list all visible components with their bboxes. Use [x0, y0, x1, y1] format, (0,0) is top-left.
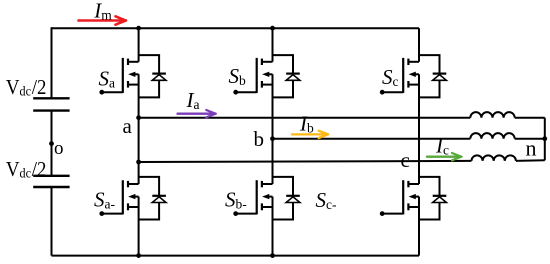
- svg-text:b: b: [254, 127, 265, 151]
- junction dot top bus / leg b: [270, 26, 275, 31]
- body diode of Q2 (Sa-): [139, 177, 166, 220]
- current arrow Im: [79, 16, 127, 24]
- svg-text:Sa: Sa: [99, 66, 116, 90]
- gate terminal dot of Q2 (Sa-): [99, 211, 104, 216]
- svg-text:Sa-: Sa-: [94, 188, 115, 212]
- current arrow Ia: [178, 110, 216, 117]
- phase leg b vertical wire: [272, 28, 274, 255]
- label Vdc/2 (top capacitor): [6, 76, 47, 99]
- body diode of Q3 (Sb): [273, 55, 300, 97]
- gate terminal dot of Q6 (Sc-): [380, 211, 385, 216]
- body diode of Q4 (Sb-): [273, 177, 300, 220]
- wire phase b output: [273, 138, 545, 140]
- phase leg a vertical wire: [138, 28, 140, 255]
- svg-text:c: c: [401, 148, 410, 172]
- gate terminal dot of Q3 (Sb): [233, 90, 238, 95]
- top DC bus wire: [52, 27, 420, 29]
- transistor Q5 (Sc): [382, 58, 419, 93]
- svg-text:Sc: Sc: [382, 65, 399, 89]
- body diode of Q1 (Sa): [139, 55, 166, 97]
- junction dot top bus / leg a: [136, 26, 141, 31]
- wire phase c output: [139, 160, 545, 162]
- wire phase a output: [139, 117, 545, 119]
- svg-text:Vdc/2: Vdc/2: [6, 158, 47, 181]
- svg-text:n: n: [526, 135, 537, 160]
- svg-text:Sc-: Sc-: [316, 188, 337, 212]
- capacitor C2 (Vdc/2 bottom): [33, 176, 69, 187]
- current arrow Ib: [292, 131, 328, 138]
- svg-text:Sb: Sb: [229, 64, 247, 88]
- transistor Q1 (Sa): [102, 58, 139, 93]
- capacitor C1 (Vdc/2 top): [33, 98, 69, 110]
- node b junction dot: [270, 136, 275, 141]
- svg-text:Sb-: Sb-: [225, 188, 247, 212]
- node o junction dot: [49, 141, 54, 146]
- node n junction dot: [542, 136, 547, 141]
- node a junction dot: [136, 115, 141, 120]
- svg-text:Ia: Ia: [186, 88, 200, 112]
- gate terminal dot of Q4 (Sb-): [233, 211, 238, 216]
- transistor Q6 (Sc-): [382, 180, 419, 214]
- transistor Q3 (Sb): [236, 58, 273, 93]
- label Vdc/2 (bottom capacitor): [6, 158, 47, 181]
- inductor Lc: [472, 155, 516, 161]
- wire right vertical to node n: [544, 118, 546, 161]
- transistor Q2 (Sa-): [102, 180, 139, 214]
- gate terminal dot of Q1 (Sa): [99, 90, 104, 95]
- svg-text:Ib: Ib: [299, 111, 314, 135]
- left DC bus wire segments: [51, 27, 53, 255]
- current arrow Ic: [427, 153, 462, 160]
- inductor Lb: [470, 133, 514, 139]
- junction dot leg a / phase c wire: [136, 160, 141, 165]
- svg-text:Im: Im: [93, 0, 112, 22]
- gate terminal dot of Q5 (Sc): [380, 90, 385, 95]
- junction dot bottom bus / leg b: [270, 253, 275, 258]
- body diode of Q6 (Sc-): [419, 177, 446, 220]
- body diode of Q5 (Sc): [419, 55, 446, 97]
- svg-text:Vdc/2: Vdc/2: [6, 76, 47, 99]
- inductor La: [470, 112, 514, 118]
- svg-text:a: a: [123, 114, 133, 138]
- phase leg c vertical wire: [418, 28, 420, 255]
- junction dot bottom bus / leg a: [136, 253, 141, 258]
- bottom DC bus wire: [52, 255, 420, 257]
- svg-text:o: o: [54, 138, 64, 159]
- svg-text:Ic: Ic: [435, 134, 449, 158]
- transistor Q4 (Sb-): [236, 180, 273, 214]
